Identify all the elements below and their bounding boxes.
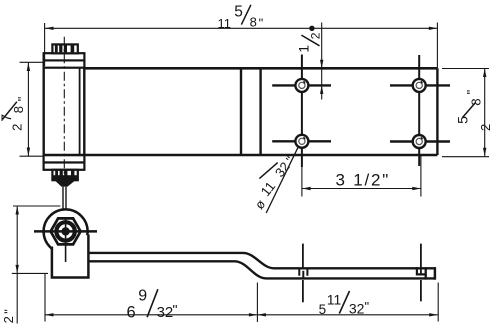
dimension 2 7/8 top arrow — [27, 63, 30, 72]
svg-text:2: 2 — [1, 316, 16, 323]
bottom dimension left extension — [44, 273, 46, 321]
pivot crosshair vertical — [65, 219, 67, 263]
bottom dimension middle extension — [256, 283, 258, 323]
fraction slash 5 11/32 — [339, 291, 349, 314]
dimension 2 7/8 bottom extension — [20, 155, 45, 157]
dimension 2 5/8 top extension — [442, 68, 489, 70]
svg-text:": " — [173, 302, 178, 318]
fraction slash 1/2 — [301, 35, 319, 46]
fraction slash o 11/32 — [259, 163, 277, 179]
svg-text:2: 2 — [309, 32, 323, 39]
dimension 3 1/2 line — [302, 188, 421, 190]
dimension 2 5/8 bottom arrow — [483, 148, 486, 157]
bottom dimension right extension — [437, 283, 439, 322]
cylinder left edge — [43, 68, 45, 156]
svg-text:ø: ø — [252, 197, 269, 213]
bottom chain dimension line — [45, 314, 438, 316]
body divider line 1 — [240, 68, 242, 155]
svg-text:8: 8 — [11, 106, 26, 113]
dimension 2 inch line — [16, 206, 18, 324]
dimension 1/2 upper arrow — [320, 60, 323, 69]
fraction slash 6 9/32 — [147, 289, 158, 317]
dimension 11 5/8 left extension line — [44, 23, 46, 66]
svg-text:": " — [464, 89, 479, 94]
hole upper-left — [295, 79, 308, 92]
dimension 3 1/2 left extension — [301, 167, 303, 197]
pinion cone — [55, 180, 76, 186]
svg-text:7: 7 — [0, 114, 14, 122]
dimension 2 inch top arrow — [16, 206, 19, 215]
arm left slot centerline below — [302, 280, 304, 302]
castle nut bottom slots — [55, 170, 74, 176]
dimension 3 1/2 left arrow — [302, 187, 311, 190]
bottom dimension middle arrows — [249, 313, 266, 316]
castle nut top slots — [55, 45, 74, 53]
fraction slash 2 7/8 — [3, 102, 17, 120]
dimension 11 5/8 right arrow — [429, 27, 438, 30]
closer body bottom edge — [44, 154, 438, 157]
top cap upper flange — [44, 53, 85, 60]
arm left slot center stub — [302, 271, 304, 279]
svg-text:": " — [2, 309, 17, 314]
dimension 3 1/2 right arrow — [412, 187, 421, 190]
pivot crosshair horizontal — [34, 230, 97, 233]
svg-text:2: 2 — [478, 124, 491, 131]
castle nut bottom dark base — [53, 175, 78, 180]
svg-text:11: 11 — [327, 292, 342, 308]
plate right edge extension line — [436, 23, 438, 69]
dimension 2 5/8 line — [484, 69, 486, 157]
svg-text:5: 5 — [319, 302, 327, 317]
arm right end cap — [434, 267, 437, 280]
dimension 2 7/8 bottom arrow — [27, 148, 30, 157]
svg-text:2: 2 — [9, 124, 24, 131]
svg-text:8: 8 — [250, 15, 257, 30]
bottom cap band 1 — [44, 155, 85, 162]
hole lower-left — [295, 135, 308, 148]
arm right slot centerline below — [420, 280, 422, 301]
svg-text:11: 11 — [258, 179, 278, 199]
bottom dimension right arrow — [429, 313, 438, 316]
hole lower-right — [413, 135, 426, 148]
dimension 2 inch top extension — [13, 205, 60, 207]
dimension 1/2 lower arrow — [320, 85, 323, 94]
fraction slash 11 5/8 — [241, 5, 251, 25]
cylinder inner line — [79, 69, 81, 155]
svg-text:32: 32 — [157, 304, 174, 321]
castle nut bottom — [52, 170, 77, 180]
pivot center highlight — [64, 231, 68, 233]
hole lower-right crosshair — [390, 140, 450, 142]
svg-text:5: 5 — [234, 4, 243, 21]
body divider line 2 (plate left edge) — [259, 68, 261, 155]
cylinder right edge — [83, 68, 85, 156]
svg-text:3 1/2": 3 1/2" — [336, 170, 391, 189]
closer body top edge — [84, 67, 437, 70]
bottom dimension left arrow — [45, 313, 54, 316]
dimension 11 5/8 left arrow — [45, 27, 54, 30]
dimension 3 1/2 right extension — [420, 156, 422, 197]
pivot ring — [56, 222, 74, 240]
right hole column centerline — [418, 55, 420, 166]
leader line for hole diameter — [266, 148, 298, 213]
dimension 2 5/8 bottom extension — [442, 156, 489, 158]
arm upper outline — [88, 253, 435, 268]
svg-text:": " — [259, 15, 264, 30]
arm end block left edge — [425, 267, 427, 279]
top cap lower band — [44, 60, 85, 67]
hole upper-right — [413, 79, 426, 92]
svg-text:11: 11 — [218, 16, 232, 31]
svg-text:32: 32 — [349, 301, 365, 317]
svg-text:1: 1 — [296, 45, 312, 53]
arm right slot centerline above — [420, 244, 422, 274]
hole lower-left crosshair — [272, 140, 331, 142]
svg-text:": " — [15, 96, 30, 101]
dimension 2 5/8 top arrow — [483, 69, 486, 78]
dimension 2 inch bottom arrow — [16, 265, 19, 274]
svg-text:": " — [365, 299, 370, 314]
dimension 2 7/8 line — [27, 63, 29, 157]
dimension 11 5/8 line — [45, 27, 437, 29]
spindle stem — [63, 187, 66, 219]
svg-text:8: 8 — [469, 98, 484, 105]
svg-text:5: 5 — [454, 116, 470, 124]
svg-text:6: 6 — [127, 303, 136, 321]
cylinder centerline — [63, 37, 65, 186]
castle nut top — [52, 44, 77, 53]
dimension 2 inch bottom extension — [12, 272, 48, 274]
svg-text:9: 9 — [138, 288, 147, 305]
arm left slot — [299, 268, 307, 275]
dot on top dimension line — [309, 26, 314, 31]
left hole column centerline — [301, 55, 303, 168]
arm right slot u — [416, 267, 427, 274]
plate right edge — [436, 68, 438, 155]
pivot hex nut — [51, 218, 81, 244]
dimension 2 7/8 top extension — [20, 61, 45, 63]
hole upper-left crosshair — [272, 84, 331, 86]
hole upper-right crosshair — [390, 84, 450, 86]
dimension 1/2 line — [321, 23, 323, 100]
bottom cap band 2 — [44, 163, 85, 170]
arm left slot centerline above — [302, 244, 304, 268]
fraction slash 2 5/8 — [463, 103, 476, 118]
arm shoe — [52, 235, 89, 278]
arm lower outline — [88, 261, 435, 278]
arm pivot circle — [44, 209, 88, 253]
pivot center blob — [61, 227, 69, 235]
